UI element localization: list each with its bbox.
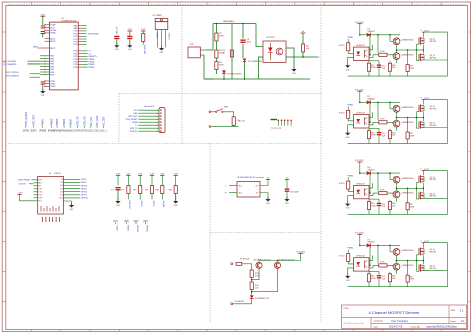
pin L_IN <box>231 263 233 265</box>
svg-text:GND: GND <box>116 205 121 207</box>
svg-text:GPIO2: GPIO2 <box>152 201 154 207</box>
svg-text:GPIO15: GPIO15 <box>81 198 89 200</box>
svg-text:STM_RESET: STM_RESET <box>126 119 139 121</box>
ground (C4) <box>116 43 118 45</box>
svg-text:IO4: IO4 <box>60 185 63 187</box>
svg-text:R 1K: R 1K <box>380 119 385 121</box>
diode D1 rectifier <box>243 59 247 62</box>
svg-text:MB6F(HALF): MB6F(HALF) <box>223 20 235 23</box>
svg-text:SWIM: SWIM <box>132 122 138 124</box>
optocoupler U8 body ch3 <box>354 185 370 198</box>
dashed partition line vertical x=210 <box>209 144 211 323</box>
wire MOSFET bottom to right rail ch2 <box>424 127 448 129</box>
svg-text:GND: GND <box>346 280 351 282</box>
svg-text:RXD0: RXD0 <box>81 182 87 184</box>
svg-text:IRF740: IRF740 <box>430 108 437 110</box>
zener D3 MMSZ5245 <box>250 295 254 298</box>
gate link vertical ch4 <box>416 255 418 271</box>
optocoupler U9 body ch4 <box>354 258 370 271</box>
ground channel 1 <box>347 63 349 65</box>
power bar OUT2 <box>422 99 426 101</box>
MOSFET Q IRF740 bottom ch1 <box>418 54 420 61</box>
svg-text:[ESP]: [ESP] <box>31 131 37 133</box>
wire zener to N pin <box>251 299 253 304</box>
connector P1 pins and wires <box>139 109 160 111</box>
svg-text:GPIO2: GPIO2 <box>81 195 88 197</box>
ESP-12 antenna squiggle <box>40 206 42 212</box>
ground channel 2 <box>347 131 349 133</box>
wire VCC stub ch4 <box>359 234 361 245</box>
svg-text:T2 T4 T6 T8: T2 T4 T6 T8 <box>271 128 281 130</box>
svg-text:R 470: R 470 <box>339 183 345 185</box>
svg-text:300K: 300K <box>219 35 224 37</box>
wire last pull-down to ground <box>175 194 177 201</box>
vertical rail cluster ch4 <box>369 245 371 265</box>
wire Q pair emitters ch3 <box>396 183 398 191</box>
resistor R3 dropper <box>215 41 217 50</box>
resistor R5 series small <box>230 50 233 57</box>
wire opto collector up ch3 <box>369 183 373 188</box>
resistor R gate-pulldown ch1 <box>368 61 370 64</box>
power bar OUT3 <box>422 169 426 171</box>
MCU right pins PD bottom group <box>78 50 81 52</box>
resistor R4 dropper <box>215 62 218 70</box>
svg-text:470R: 470R <box>255 275 260 277</box>
wire emitter junction to gates ch3 <box>397 187 409 189</box>
wire zener bottom rail <box>205 78 310 80</box>
wire MOSFET source/drain link ch1 <box>422 45 424 54</box>
svg-text:STM_TX: STM_TX <box>76 116 79 126</box>
svg-text:GPIO4: GPIO4 <box>81 185 88 187</box>
svg-text:SM4007: SM4007 <box>368 99 376 101</box>
svg-text:+VO: +VO <box>255 185 259 187</box>
wire opto top rail junctions ch1 <box>369 60 379 62</box>
ground (MCU) <box>42 89 44 91</box>
svg-text:GND: GND <box>128 49 133 51</box>
svg-text:R 1K: R 1K <box>380 51 385 53</box>
svg-text:SWIM/T5: SWIM/T5 <box>88 56 97 58</box>
resistor R9 10K pull-up <box>150 186 153 194</box>
resistor R divider ch1 <box>389 61 391 63</box>
wire Q bottom collector down ch2 <box>396 127 398 131</box>
svg-text:PWM2: PWM2 <box>348 105 354 107</box>
resistor R source ch4 <box>407 261 409 276</box>
wire AC L rail <box>207 24 214 51</box>
svg-text:1: 1 <box>157 110 158 112</box>
wire PWM input ch4 <box>347 250 349 254</box>
transistor Q NPN top ch1 <box>393 38 400 45</box>
wire 3.3V to MCU VDD pins <box>42 18 44 25</box>
gate link vertical ch1 <box>416 44 418 61</box>
svg-text:VDD: VDD <box>50 27 55 29</box>
vertical rail cluster ch2 <box>369 102 371 122</box>
svg-text:R 470: R 470 <box>339 45 345 47</box>
svg-text:U2 78M05: U2 78M05 <box>153 15 163 17</box>
wire opto top rail junctions ch2 <box>369 127 379 129</box>
svg-text:PWM4: PWM4 <box>88 67 95 69</box>
wire VSS to ground <box>42 85 44 91</box>
svg-text:PWM4: PWM4 <box>63 118 66 126</box>
wire STM_RX <box>30 76 41 78</box>
wire collector rail to VCC <box>259 261 301 262</box>
resistor R input ch4 <box>347 253 350 261</box>
MCU U1 STM8S105K4T6 body <box>49 22 78 90</box>
wire C4 to ground <box>116 40 118 45</box>
svg-text:ESP_RST: ESP_RST <box>143 45 145 55</box>
border reference ticks <box>31 2 33 6</box>
svg-text:SWIM: SWIM <box>70 119 73 126</box>
capacitor C timing ch4 <box>378 271 380 275</box>
svg-text:Company:: Company: <box>374 321 384 323</box>
title block row divider 1 <box>342 317 467 319</box>
wire opto collector up ch4 <box>369 255 373 260</box>
switch SW1 contacts <box>211 111 216 113</box>
wire top rail <box>213 23 256 25</box>
resistor R1 pull-up <box>142 34 145 42</box>
wire R to opto ch3 <box>348 189 353 192</box>
wire VCC stub ch1 <box>359 24 361 35</box>
right rail ch2 <box>425 99 447 101</box>
svg-text:REV:: REV: <box>451 310 456 312</box>
capacitor C timing ch1 <box>378 61 380 65</box>
wire opto emitter to divider ch1 <box>369 55 379 58</box>
junction R13/R14 <box>251 278 253 283</box>
svg-text:3.3V: 3.3V <box>133 110 138 112</box>
svg-text:[STM]: [STM] <box>74 131 80 133</box>
power bar OUT4 <box>422 242 426 244</box>
wire R to opto ch2 <box>348 118 353 121</box>
wire PWM input ch3 <box>347 177 349 181</box>
wire top rail ch2 <box>360 101 367 103</box>
svg-text:U5 PC817: U5 PC817 <box>266 37 275 39</box>
vertical rail cluster ch3 <box>369 173 371 193</box>
resistor R divider ch3 <box>389 200 391 202</box>
dashed partition line y=93.5 <box>119 93 321 95</box>
wire PWM input ch1 <box>347 39 349 43</box>
wire MOSFET source/drain link ch4 <box>422 255 424 264</box>
transistor Q NPN bottom ch2 <box>393 120 400 127</box>
svg-text:U6 HLK-PM01 AC-DC converter: U6 HLK-PM01 AC-DC converter <box>237 176 264 179</box>
svg-text:PWM2: PWM2 <box>88 62 95 64</box>
wire C6 down <box>242 44 244 58</box>
svg-text:STM_RESET: STM_RESET <box>25 111 28 126</box>
svg-text:IO12: IO12 <box>39 195 43 197</box>
svg-text:STM_RX: STM_RX <box>83 116 86 126</box>
svg-text:CH_EN: CH_EN <box>19 184 26 186</box>
svg-text:I2C_SCL: I2C_SCL <box>90 115 93 125</box>
svg-text:R 1K: R 1K <box>380 189 385 191</box>
wire F1 to Q5 <box>242 263 252 265</box>
svg-text:GND: GND <box>292 73 297 75</box>
svg-text:F1 ES/2W: F1 ES/2W <box>240 259 249 261</box>
svg-text:I2C_SCL(PB4): I2C_SCL(PB4) <box>4 61 17 63</box>
svg-text:AC1: AC1 <box>239 184 243 187</box>
svg-text:R 470: R 470 <box>339 112 345 114</box>
svg-text:STM_TX(PD5): STM_TX(PD5) <box>6 72 19 74</box>
diode D7 SM4007 <box>367 243 371 247</box>
wire MOSFET bottom to right rail ch1 <box>424 59 448 61</box>
gate link vertical ch2 <box>416 112 418 129</box>
wire Q bottom collector down ch3 <box>396 198 398 202</box>
wire top rail down to cap <box>242 24 244 39</box>
ground channel 4 <box>347 274 349 276</box>
wire MOSFET bottom to right rail ch3 <box>424 197 448 199</box>
wire emitter node to mosfets ch2 <box>408 117 423 119</box>
wire Q pair emitters ch1 <box>396 45 398 53</box>
vertical wire mid <box>231 24 233 80</box>
svg-text:C8 100uF: C8 100uF <box>290 192 300 194</box>
module U6 HLK-PM01 body <box>237 182 260 198</box>
svg-text:Q MMBT3904: Q MMBT3904 <box>401 178 414 180</box>
bottom rail ch1 <box>348 75 448 77</box>
ground (ESP) <box>71 203 73 205</box>
varistor RV1 <box>232 117 235 126</box>
resistor R source ch2 <box>407 118 409 133</box>
MOSFET Q IRF740 bottom ch3 <box>418 192 420 199</box>
wire MOSFET drain to OUT ch1 <box>423 32 425 37</box>
voltage regulator U2 78M05 TO-220 package <box>155 19 168 22</box>
wire MOSFET drain to OUT ch3 <box>423 170 425 175</box>
wire Q6 emitter down and left <box>252 269 278 292</box>
svg-text:PWM2: PWM2 <box>50 118 53 126</box>
wire VCC stub ch2 <box>359 91 361 102</box>
wire C8 top <box>286 179 288 188</box>
resistor R11 10K pull-up <box>174 186 177 194</box>
bottom rail ch4 <box>348 286 448 288</box>
svg-text:IRF740: IRF740 <box>430 125 437 127</box>
wire MOSFET drain to OUT ch2 <box>423 100 425 105</box>
svg-text:GPIO4: GPIO4 <box>136 225 138 232</box>
wire mid R to Q2 base ch3 <box>387 193 393 194</box>
svg-text:[SWI]: [SWI] <box>68 131 74 133</box>
svg-text:470R: 470R <box>410 68 415 70</box>
svg-text:[I2C]: [I2C] <box>88 131 93 133</box>
wire diode to bottom rail <box>244 62 246 79</box>
dashed partition line y=143.5 <box>8 143 321 145</box>
svg-text:ESP_RST: ESP_RST <box>128 201 130 210</box>
wire HLK -VO to ground <box>260 193 268 199</box>
ground (HLK) <box>267 197 269 199</box>
wire MOSFET source/drain link ch2 <box>422 112 424 121</box>
wire mid R to Q2 base ch1 <box>387 55 393 56</box>
wire SW1 to varistor <box>223 112 234 117</box>
resistor R14 <box>250 282 253 290</box>
svg-text:3.3VOUT: 3.3VOUT <box>167 33 169 41</box>
resistor R gate-pulldown ch2 <box>368 128 370 131</box>
wire C8 to ground <box>286 192 288 199</box>
svg-text:STM_RX: STM_RX <box>129 131 138 133</box>
svg-text:RST: RST <box>39 180 42 182</box>
wire R1 bottom <box>142 42 144 45</box>
MCU right pins PA/PC top group <box>78 25 81 27</box>
wire opto emitter to ground <box>286 48 294 69</box>
svg-text:GPIO0: GPIO0 <box>140 201 142 207</box>
svg-text:Q MMBT3904: Q MMBT3904 <box>401 107 414 109</box>
MCU left pins VCAP/VDD/VDDA group <box>45 24 50 26</box>
svg-text:STM_RESET: STM_RESET <box>88 33 100 35</box>
svg-text:GPIO5: GPIO5 <box>146 225 148 232</box>
svg-text:IRF740: IRF740 <box>430 196 437 198</box>
resistor R divider ch2 <box>389 129 391 131</box>
wire VCAP pins to MCU <box>42 34 44 38</box>
junction top rail <box>216 23 218 25</box>
svg-text:STM_RX(PD6): STM_RX(PD6) <box>6 75 19 77</box>
svg-text:D2 SM4007(M7): D2 SM4007(M7) <box>227 74 242 76</box>
svg-text:PWM1: PWM1 <box>42 118 45 126</box>
wire MOSFET source/drain link ch3 <box>422 183 424 192</box>
resistor R source ch1 <box>407 50 409 65</box>
svg-text:STM_TX: STM_TX <box>130 128 139 130</box>
svg-text:[I2C]: [I2C] <box>95 131 100 133</box>
svg-text:SM4007: SM4007 <box>368 242 376 244</box>
svg-text:GND: GND <box>70 209 75 211</box>
wire ESP GND pin <box>64 201 72 205</box>
wire Q bottom collector down ch4 <box>396 270 398 274</box>
svg-text:Q MMBT3904: Q MMBT3904 <box>401 40 414 42</box>
resistor R mid ch4 <box>379 264 387 267</box>
wire Q1 base from rail ch1 <box>389 35 391 42</box>
svg-text:GND: GND <box>133 113 138 115</box>
wire top rail to opto anode <box>256 24 263 47</box>
dashed partition line y=233 <box>210 232 321 234</box>
svg-text:Your Company: Your Company <box>391 319 409 323</box>
wire top rail ch4 <box>360 244 367 246</box>
capacitor C timing ch2 <box>378 128 380 132</box>
svg-text:5: 5 <box>157 122 158 124</box>
title block row divider 2 <box>371 323 467 325</box>
wire Q1 base from rail ch4 <box>389 245 391 252</box>
resistor R divider ch4 <box>389 272 391 274</box>
wire C5 top <box>129 33 131 36</box>
svg-text:U4: U4 <box>49 173 51 175</box>
transistor Q NPN bottom ch3 <box>393 191 400 198</box>
svg-text:[AC_]: [AC_] <box>101 130 107 133</box>
diode D4 SM4007 <box>367 33 371 37</box>
svg-text:[STM]: [STM] <box>23 131 29 133</box>
switch SW1 pin 2 and bottom wire <box>209 126 211 128</box>
svg-text:GND: GND <box>41 95 46 97</box>
wire Q pair emitters ch4 <box>396 255 398 263</box>
svg-text:GND: GND <box>285 203 290 205</box>
svg-text:ESP_RESET: ESP_RESET <box>19 180 32 182</box>
svg-text:Drawn By:: Drawn By: <box>411 325 421 328</box>
resistor R7 10K pull-up <box>127 186 130 194</box>
zener D2 across input <box>223 70 225 74</box>
right rail ch3 <box>425 169 447 171</box>
svg-text:I2C_SDA(PB5): I2C_SDA(PB5) <box>4 63 17 66</box>
transistor Q NPN bottom ch1 <box>393 53 400 60</box>
svg-text:IO0: IO0 <box>60 191 63 193</box>
wire Q bottom collector down ch1 <box>396 60 398 64</box>
wire opto collector up ch1 <box>369 45 373 50</box>
right rail ch4 <box>425 242 447 244</box>
svg-text:VSS3: VSS3 <box>50 86 56 88</box>
right rail ch1 <box>425 31 447 33</box>
wire emitter junction to gates ch4 <box>397 260 409 262</box>
bottom rail ch3 <box>348 213 448 215</box>
svg-text:IO15: IO15 <box>59 198 63 200</box>
wire opto emitter to divider ch2 <box>369 122 379 125</box>
capacitor C timing ch3 <box>378 199 380 203</box>
wire R to opto ch4 <box>348 261 353 264</box>
svg-text:Date:: Date: <box>374 325 379 328</box>
wire PWM input ch2 <box>347 106 349 110</box>
resistor R6 opto pullup <box>301 44 304 52</box>
wire Q1 base from rail ch3 <box>389 173 391 180</box>
wire 5V to resistor R6 <box>302 35 304 44</box>
svg-text:IRF740: IRF740 <box>430 268 437 270</box>
svg-text:PWM3: PWM3 <box>88 64 95 66</box>
capacitor C8 100uF <box>285 189 290 190</box>
ground (R11) <box>175 199 177 201</box>
title block column divider logo <box>370 318 372 329</box>
svg-text:GPIO5: GPIO5 <box>81 188 88 190</box>
wire STM_TX <box>30 73 41 75</box>
wire opto cathode to ground ch1 <box>348 57 354 65</box>
svg-text:VDDA: VDDA <box>50 29 56 32</box>
transistor Q NPN top ch3 <box>393 176 400 183</box>
ground (regulator) <box>161 46 163 48</box>
wire C5 to ground <box>129 40 131 45</box>
optocoupler U5 input LED <box>268 48 273 52</box>
dashed partition line vertical x=119 <box>118 94 120 144</box>
MOSFET Q IRF740 top ch2 <box>418 105 420 112</box>
wire Q5 base chain down <box>251 264 253 270</box>
wire top rail ch3 <box>360 172 367 174</box>
svg-text:3: 3 <box>157 116 158 118</box>
svg-text:CN1: CN1 <box>190 44 194 46</box>
svg-text:300K: 300K <box>219 64 224 66</box>
diode D6 SM4007 <box>367 171 371 175</box>
title block outer box <box>342 305 467 329</box>
wire Q5 emitter to junction <box>252 269 259 280</box>
module U4 ESP-12 body <box>38 177 64 215</box>
dashed partition line vertical x=321 <box>320 5 322 322</box>
svg-text:AC2: AC2 <box>239 191 243 194</box>
wire emitter node to mosfets ch1 <box>408 49 423 51</box>
MOSFET Q IRF740 top ch1 <box>418 37 420 44</box>
svg-text:I2C_SDA: I2C_SDA <box>96 115 99 125</box>
svg-text:NRST: NRST <box>50 48 56 50</box>
dashed partition line top <box>8 4 466 6</box>
svg-text:IRF740: IRF740 <box>430 41 437 43</box>
wire AC N rail down <box>204 55 213 79</box>
transistor Q6 MMBT5401 <box>274 262 280 268</box>
wire R6 to opto collector / AC_DET out <box>286 52 303 57</box>
wire MOSFET drain to OUT ch4 <box>423 243 425 248</box>
resistor R mid ch1 <box>379 53 387 56</box>
svg-text:2: 2 <box>157 113 158 115</box>
MCU bottom-left VSS pins <box>45 80 50 82</box>
svg-text:F2 ES/1W: F2 ES/1W <box>235 301 244 303</box>
wire top rail ch1 <box>360 34 367 36</box>
svg-text:GND: GND <box>174 205 179 207</box>
svg-text:GPIO0: GPIO0 <box>81 192 88 194</box>
resistor R13 <box>250 270 253 278</box>
optocoupler U6 body ch1 <box>354 47 370 60</box>
power bar OUT1 <box>422 31 426 33</box>
svg-text:VIN3.3V: VIN3.3V <box>117 26 119 34</box>
ground channel 3 <box>347 201 349 203</box>
wire opto cathode to ground ch3 <box>348 196 354 204</box>
wire emitter node to mosfets ch3 <box>408 187 423 189</box>
dashed partition line vertical x=182 <box>181 5 183 144</box>
svg-text:GND: GND <box>346 208 351 210</box>
svg-text:TXD0: TXD0 <box>116 225 118 231</box>
svg-text:2019-07-09: 2019-07-09 <box>389 325 403 329</box>
svg-text:ESP_RST: ESP_RST <box>128 116 138 118</box>
MOSFET Q IRF740 bottom ch2 <box>418 121 420 128</box>
